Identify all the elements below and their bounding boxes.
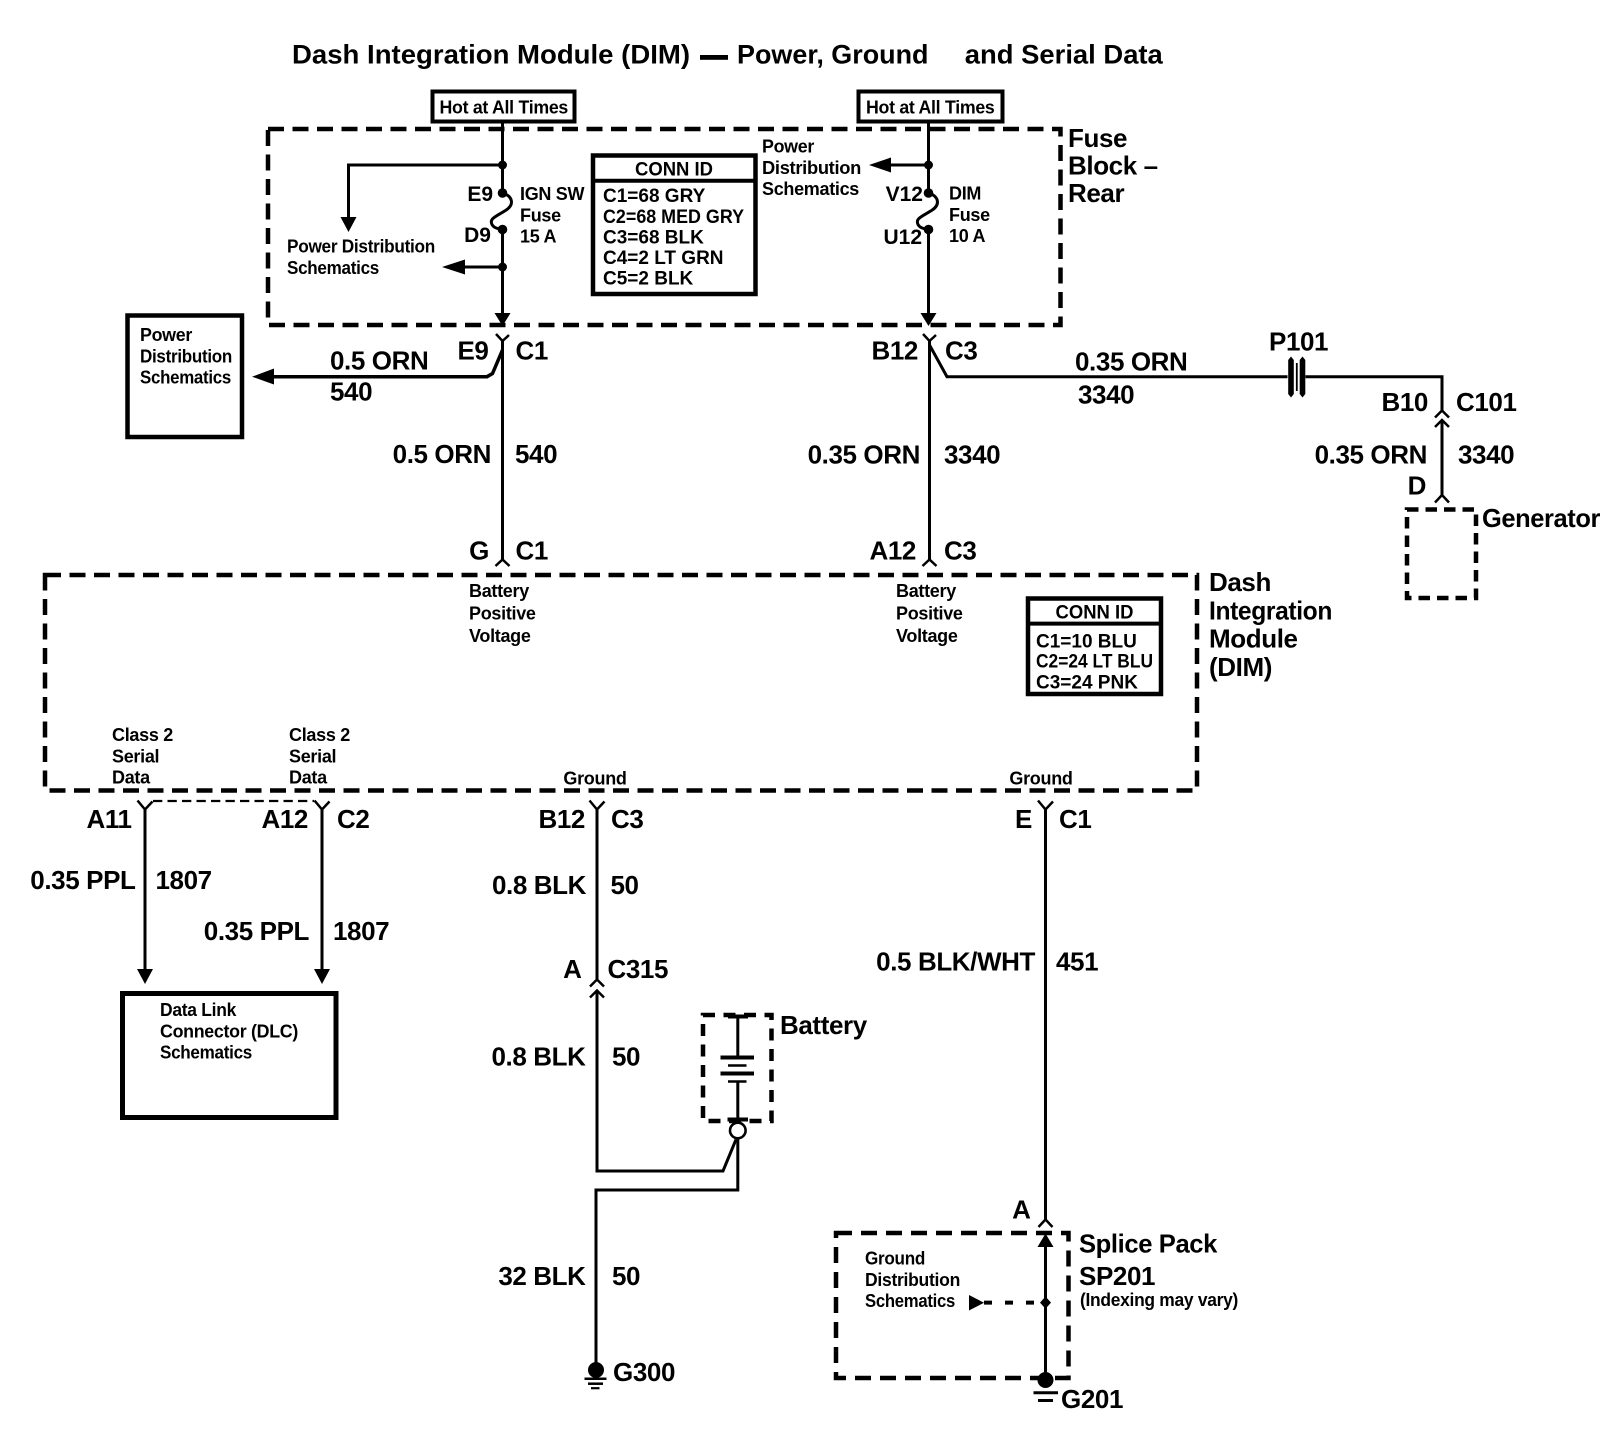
svg-text:10 A: 10 A — [949, 226, 985, 246]
svg-text:E: E — [1015, 804, 1032, 834]
svg-text:C2=68 MED GRY: C2=68 MED GRY — [603, 207, 744, 228]
svg-text:C1: C1 — [1059, 804, 1091, 834]
svg-text:Battery: Battery — [896, 581, 956, 601]
svg-text:50: 50 — [612, 1261, 640, 1291]
fuse F2: DIM Fuse 10 A — [917, 188, 937, 234]
node: junction dot below fuse1 — [498, 263, 507, 272]
svg-text:3340: 3340 — [1458, 440, 1514, 470]
svg-text:Power: Power — [140, 325, 192, 345]
wire: battery terminal down, left, down to G300 — [596, 1138, 738, 1363]
label: Power Distribution Schematics (in fuse block right) — [762, 137, 861, 200]
wire+arrow: branch left to power distribution — [890, 164, 929, 167]
svg-text:Module: Module — [1209, 624, 1298, 654]
box: Power Distribution Schematics — [128, 316, 243, 438]
svg-text:Schematics: Schematics — [865, 1291, 955, 1311]
svg-text:0.35 ORN: 0.35 ORN — [1315, 440, 1427, 470]
svg-text:A12: A12 — [262, 804, 309, 834]
svg-text:Schematics: Schematics — [140, 368, 231, 388]
svg-text:540: 540 — [515, 439, 557, 469]
svg-text:Distribution: Distribution — [762, 158, 861, 178]
svg-text:G: G — [469, 536, 489, 566]
svg-text:1807: 1807 — [156, 865, 212, 895]
box: Data Link Connector (DLC) Schematics — [123, 994, 337, 1118]
svg-text:Data: Data — [112, 768, 151, 788]
wire: C315 down then right to battery terminal — [597, 991, 736, 1172]
svg-text:50: 50 — [612, 1042, 640, 1072]
svg-text:Fuse: Fuse — [949, 205, 990, 225]
svg-text:C1=10 BLU: C1=10 BLU — [1036, 631, 1137, 652]
svg-text:G201: G201 — [1061, 1384, 1123, 1414]
svg-text:Ground: Ground — [1009, 769, 1072, 789]
connector D (chevron up) — [1435, 495, 1449, 503]
svg-text:A: A — [1012, 1195, 1031, 1225]
svg-text:(Indexing may vary): (Indexing may vary) — [1080, 1290, 1238, 1310]
svg-text:Positive: Positive — [469, 604, 536, 624]
wire: E9/C1 down to G/C1 — [501, 341, 504, 560]
wire: P101 to corner and down to B10 — [1306, 377, 1443, 411]
svg-text:0.35 ORN: 0.35 ORN — [1075, 347, 1187, 377]
svg-text:Schematics: Schematics — [762, 179, 859, 199]
wire: B10 down to D — [1441, 420, 1444, 495]
svg-text:50: 50 — [611, 870, 639, 900]
svg-text:Positive: Positive — [896, 604, 963, 624]
arrowhead down exiting fuse block left — [495, 313, 511, 326]
generator dashed box — [1407, 510, 1476, 599]
connector G/C1 (chevron up) — [496, 560, 510, 567]
svg-text:D9: D9 — [464, 224, 491, 247]
svg-text:C3: C3 — [945, 336, 977, 366]
arrowhead down exiting fuse block right — [921, 313, 937, 326]
svg-text:Block –: Block – — [1068, 151, 1158, 181]
svg-text:0.8 BLK: 0.8 BLK — [491, 1042, 586, 1072]
arrowhead down to power distribution schematics — [341, 217, 357, 232]
svg-text:Splice Pack: Splice Pack — [1079, 1229, 1218, 1259]
svg-text:3340: 3340 — [1078, 380, 1134, 410]
wire: A11 down to DLC — [144, 810, 147, 970]
svg-text:C5=2 BLK: C5=2 BLK — [603, 269, 694, 290]
svg-text:Battery: Battery — [780, 1010, 868, 1040]
svg-text:DIM: DIM — [949, 184, 981, 204]
svg-text:Data Link: Data Link — [160, 1000, 237, 1020]
connector P101 (pass-through) — [1288, 357, 1305, 398]
svg-text:B12: B12 — [539, 804, 586, 834]
svg-text:C2=24 LT BLU: C2=24 LT BLU — [1036, 652, 1153, 673]
connector E/C1 (chevron) — [1038, 801, 1053, 810]
svg-text:540: 540 — [330, 377, 372, 407]
wire: hot1 down to fuse E9 — [501, 122, 504, 194]
svg-text:B12: B12 — [872, 336, 919, 366]
svg-text:Dash: Dash — [1209, 567, 1271, 597]
svg-text:3340: 3340 — [944, 440, 1000, 470]
svg-text:C315: C315 — [608, 954, 669, 984]
svg-text:C3: C3 — [611, 804, 643, 834]
svg-text:CONN ID: CONN ID — [1056, 603, 1134, 624]
label: Class 2 Serial Data (left) — [112, 725, 173, 787]
svg-text:C4=2 LT GRN: C4=2 LT GRN — [603, 248, 724, 269]
svg-text:G300: G300 — [613, 1357, 675, 1387]
connector A11 (chevron) — [138, 801, 153, 810]
svg-text:CONN ID: CONN ID — [635, 160, 713, 181]
connector B12/C3 (chevron) — [923, 334, 936, 341]
svg-text:451: 451 — [1056, 947, 1098, 977]
svg-text:and Serial Data: and Serial Data — [965, 40, 1164, 70]
svg-text:Voltage: Voltage — [469, 626, 531, 646]
connector B12/C3 bottom (chevron) — [590, 801, 605, 810]
title: Dash Integration Module (DIM) - Power, Ground and Serial Data — [292, 40, 1164, 70]
svg-text:Ground: Ground — [563, 769, 626, 789]
svg-text:A: A — [563, 954, 582, 984]
svg-text:C1: C1 — [516, 336, 548, 366]
arrow right + dashed leader to wire — [969, 1295, 1051, 1311]
svg-text:0.5 BLK/WHT: 0.5 BLK/WHT — [876, 947, 1035, 977]
connector E9/C1 (chevron) — [496, 334, 509, 341]
svg-text:Schematics: Schematics — [160, 1043, 252, 1063]
label: Splice Pack SP201 — [1079, 1229, 1238, 1311]
arrowhead up into splice pack — [1038, 1234, 1054, 1248]
connector A12/C3 (chevron up) — [923, 560, 937, 567]
svg-text:U12: U12 — [883, 226, 922, 249]
svg-text:Power, Ground: Power, Ground — [737, 40, 929, 70]
fuse block rear dashed box — [268, 129, 1061, 325]
label: Battery Positive Voltage (left) — [469, 581, 536, 646]
svg-text:IGN SW: IGN SW — [520, 184, 585, 204]
label box: Hot at All Times (left) — [433, 92, 575, 122]
svg-text:D: D — [1408, 471, 1426, 501]
svg-text:Data: Data — [289, 768, 328, 788]
svg-text:0.35 PPL: 0.35 PPL — [30, 865, 136, 895]
svg-text:C1=68 GRY: C1=68 GRY — [603, 186, 706, 207]
label: Battery Positive Voltage (right) — [896, 581, 963, 646]
svg-text:Fuse: Fuse — [1068, 123, 1127, 153]
svg-text:0.8 BLK: 0.8 BLK — [492, 870, 587, 900]
wire: hot2 down to fuse V12 — [927, 122, 930, 194]
svg-text:0.5 ORN: 0.5 ORN — [330, 346, 428, 376]
svg-text:1807: 1807 — [333, 916, 389, 946]
connector B10/C101 (double chevron) — [1435, 411, 1449, 428]
connector A12/C2 (chevron) — [315, 801, 330, 810]
svg-text:Dash Integration Module (DIM): Dash Integration Module (DIM) — [292, 40, 690, 70]
label box: Hot at All Times (right) — [859, 92, 1003, 122]
connector A splice (chevron up) — [1039, 1220, 1053, 1228]
dashed link A11 to A12 — [153, 800, 314, 802]
svg-text:SP201: SP201 — [1079, 1261, 1155, 1291]
svg-text:Class 2: Class 2 — [112, 725, 173, 745]
svg-text:15 A: 15 A — [520, 227, 556, 247]
svg-text:0.35 ORN: 0.35 ORN — [808, 440, 920, 470]
wire: branch left from junction — [349, 165, 503, 217]
svg-text:0.35 PPL: 0.35 PPL — [204, 916, 310, 946]
battery terminal circle — [730, 1123, 746, 1139]
svg-text:Ground: Ground — [865, 1249, 925, 1269]
label: Dash Integration Module (DIM) — [1209, 567, 1332, 682]
svg-text:Hot at All Times: Hot at All Times — [440, 98, 569, 118]
wire: E/C1 ground down to splice pack — [1044, 810, 1047, 1220]
svg-text:C1: C1 — [516, 536, 548, 566]
svg-text:E9: E9 — [457, 336, 488, 366]
svg-text:Serial: Serial — [289, 746, 336, 766]
wire: branch from E9 to power distribution schematics box — [274, 350, 503, 377]
wire+arrow: branch left below fuse1 — [464, 266, 503, 269]
label: IGN SW Fuse 15 A — [520, 184, 585, 247]
svg-text:Rear: Rear — [1068, 178, 1124, 208]
wire: B12 ground down to C315 — [596, 810, 599, 980]
splice pack dashed box — [836, 1233, 1069, 1378]
fuse F1: IGN SW Fuse 15 A — [491, 188, 511, 234]
node: junction dot left — [498, 161, 507, 170]
svg-text:Integration: Integration — [1209, 595, 1332, 625]
svg-text:Distribution: Distribution — [140, 346, 232, 366]
ground G300 — [585, 1362, 607, 1388]
svg-text:(DIM): (DIM) — [1209, 652, 1272, 682]
wire: branch from B12 right to P101 — [930, 345, 1288, 377]
svg-text:V12: V12 — [886, 183, 923, 206]
svg-text:A11: A11 — [86, 804, 131, 834]
battery symbol — [721, 1017, 755, 1120]
CONN ID table (fuse block) — [593, 156, 756, 295]
CONN ID table (DIM) — [1028, 599, 1161, 695]
svg-text:Schematics: Schematics — [287, 258, 379, 278]
wire: B12/C3 down to A12/C3 — [928, 341, 931, 560]
svg-text:Generator: Generator — [1482, 503, 1600, 533]
label: Power Distribution Schematics (in fuse block left) — [287, 237, 435, 278]
label: Fuse Block - Rear — [1068, 123, 1158, 208]
svg-text:Fuse: Fuse — [520, 205, 561, 225]
svg-text:Power Distribution: Power Distribution — [287, 237, 435, 257]
label: Ground Distribution Schematics — [865, 1249, 960, 1312]
svg-text:Serial: Serial — [112, 746, 159, 766]
svg-text:Hot at All Times: Hot at All Times — [866, 98, 995, 118]
svg-text:A12: A12 — [870, 536, 917, 566]
wire: A12 down to DLC — [321, 810, 324, 970]
wire: inside splice pack down to G201 — [1044, 1244, 1047, 1372]
svg-text:Power: Power — [762, 137, 814, 157]
node: junction dot right — [924, 161, 933, 170]
svg-text:32 BLK: 32 BLK — [498, 1261, 586, 1291]
svg-text:C3=24 PNK: C3=24 PNK — [1036, 672, 1138, 693]
svg-text:C3=68 BLK: C3=68 BLK — [603, 227, 704, 248]
svg-text:C101: C101 — [1456, 387, 1517, 417]
connector A/C315 (double chevron) — [590, 980, 604, 998]
svg-text:Class 2: Class 2 — [289, 725, 350, 745]
DIM dashed box — [45, 575, 1197, 791]
battery dashed box — [703, 1015, 772, 1121]
ground G201 — [1034, 1372, 1059, 1401]
svg-text:Voltage: Voltage — [896, 626, 958, 646]
svg-text:0.5 ORN: 0.5 ORN — [393, 439, 491, 469]
svg-text:C2: C2 — [337, 804, 369, 834]
svg-text:Battery: Battery — [469, 581, 529, 601]
label: Class 2 Serial Data (right) — [289, 725, 350, 787]
wire: below fuse2 to box edge — [927, 230, 930, 314]
svg-text:C3: C3 — [944, 536, 976, 566]
label: DIM Fuse 10 A — [949, 184, 990, 247]
arrowhead left into PDS box — [252, 369, 274, 385]
svg-text:P101: P101 — [1269, 327, 1328, 357]
svg-text:Connector (DLC): Connector (DLC) — [160, 1021, 298, 1041]
svg-text:B10: B10 — [1382, 387, 1429, 417]
svg-text:E9: E9 — [467, 183, 493, 206]
wire: below fuse1 to box edge — [501, 230, 504, 314]
svg-text:Distribution: Distribution — [865, 1270, 960, 1290]
